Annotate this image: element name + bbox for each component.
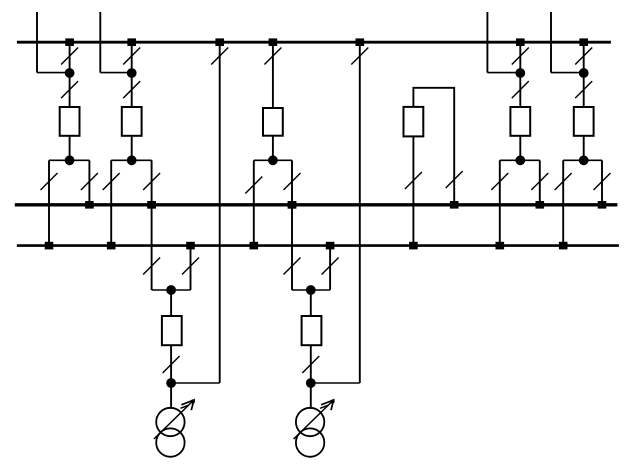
wire - T1 breaker to node [170, 345, 172, 383]
node - T2 bypass tap [306, 378, 316, 388]
disconnector QS31 (bay 3 to W1) [284, 173, 301, 190]
wire - bay 3 breaker to bar [272, 136, 274, 161]
node - bay 6 bar junction [579, 155, 589, 165]
node - bay 2 junction on bypass bus [127, 38, 136, 46]
disconnector QS-T11 (T1 to W1) [143, 258, 160, 275]
transformer T2 HV winding [296, 408, 324, 436]
wire - bay 2 node to breaker [131, 73, 133, 107]
disconnector QS22 (bay 2 to W2) [103, 173, 120, 190]
node - bay 1 right leg on W1 [85, 201, 94, 209]
wire - line feeder 2 drop [99, 12, 101, 73]
node - bay 1 junction on bypass bus [65, 38, 74, 46]
node - bay 1 bar junction [65, 155, 75, 165]
node - bay 6 line node [579, 68, 589, 78]
disconnector QS61 (bay 6 to W1) [594, 173, 611, 190]
wire - T2 right leg from W2 [329, 246, 331, 290]
wire - bay 3 right leg to bus W1 (continues to T2) [291, 160, 293, 290]
node - T2 right leg on W2 [326, 242, 335, 250]
wire - bay 2 breaker to bar [131, 136, 133, 161]
circuit breaker Q3 (bypass coupler) [263, 108, 283, 136]
disconnector QS12 (bay 1 to W2) [41, 173, 58, 190]
disconnector QS-T22 (T2 to W2) [322, 258, 339, 275]
wire - bay 5 bypass-bus to node [519, 42, 521, 73]
wire - bay 3 bar [254, 159, 292, 161]
node - T1 left leg on W1 [147, 201, 156, 209]
transformer T1 LV winding [156, 428, 184, 456]
wire - bay 6 bar [563, 159, 602, 161]
disconnector QS42 (coupler to W2) [405, 172, 422, 189]
disconnector QS-T12 (T1 to W2) [182, 258, 199, 275]
node - bay 5 left leg on W2 [496, 242, 505, 250]
disconnector QS62 (bay 6 to W2) [555, 173, 572, 190]
wire - bypass dropper B1 [219, 42, 221, 383]
transformer T1 HV winding [156, 408, 184, 436]
node - bay 3 junction on bypass bus [269, 38, 278, 46]
wire - bay 6 bypass-bus to node [583, 42, 585, 73]
bypass busbar W0 (top) [17, 41, 611, 44]
wire - bay 6 breaker to bar [583, 136, 585, 161]
node - bay 1 line node [65, 68, 75, 78]
wire - bay 2 left leg to bus W2 [110, 160, 112, 245]
wire - bay 1 bar [49, 159, 89, 161]
disconnector QS-T2t (T2 side) [302, 356, 319, 373]
wire - feeder 1 bend to node [37, 72, 70, 74]
wire - bay 1 bypass-bus to node [69, 42, 71, 73]
disconnector QS21 (bay 2 to W1) [143, 173, 160, 190]
wire - T1 right leg from W2 [190, 246, 192, 290]
node - bay 2 right leg on W1 [147, 201, 156, 209]
disconnector QS-B2 (bypass) [351, 48, 368, 65]
wire - bay 6 right leg to bus W1 [601, 160, 603, 205]
wire - bypass dropper B2 [359, 42, 361, 383]
wire - T2 bar to breaker [310, 290, 312, 316]
node - bypass dropper B2 on W0 [356, 38, 365, 46]
wire - T2 bypass link [311, 382, 360, 384]
node - T1 bar junction [166, 285, 176, 295]
transformer T1 regulation arrow [154, 399, 195, 439]
wire - T2 bar [292, 289, 330, 291]
wire - bay 2 right leg to bus W1 [151, 160, 153, 290]
circuit breaker Q6 [574, 107, 594, 136]
node - bypass dropper B1 on W0 [215, 38, 224, 46]
disconnector QS2l (bay 2 line) [123, 81, 140, 98]
wire - T2 node to transformer [310, 383, 312, 409]
wire - bay 3 left leg to bus W2 [253, 160, 255, 245]
wire - bay 1 left leg to bus W2 [48, 160, 50, 245]
wire - T1 bypass link [171, 382, 220, 384]
wire - bus coupler lower leg to W2 [412, 136, 414, 245]
wire - T1 node to transformer [170, 383, 172, 409]
disconnector QS-T21 (T2 to W1) [284, 258, 301, 275]
circuit breaker Q4 (bus coupler) [404, 107, 424, 136]
transformer T2 regulation arrow [294, 399, 335, 439]
node - bay 5 junction on bypass bus [516, 38, 525, 46]
wire - feeder 5 bend to node [487, 72, 520, 74]
circuit breaker Q2 [122, 107, 142, 136]
disconnector QS-B1 (bypass) [211, 48, 228, 65]
disconnector QS11 (bay 1 to W1) [81, 173, 98, 190]
disconnector QS3b (bay 3 bypass) [264, 48, 281, 65]
node - bay 6 right leg on W1 [598, 201, 607, 209]
wire - T2 breaker to node [310, 345, 312, 383]
node - bay 5 right leg on W1 [536, 201, 545, 209]
disconnector QS32 (bay 3 to W2) [245, 177, 262, 194]
wire - bay 5 bar [500, 159, 540, 161]
wire - line feeder 5 drop [486, 12, 488, 73]
node - bay 3 bar junction [268, 155, 278, 165]
node - T2 left leg on W1 [288, 201, 297, 209]
wire - bay 5 node to breaker [519, 73, 521, 107]
wire - bay 5 breaker to bar [519, 136, 521, 161]
node - T1 bypass tap [166, 378, 176, 388]
disconnector QS5l (bay 5 line) [512, 81, 529, 98]
wire - bay 1 breaker to bar [69, 136, 71, 161]
node - bay 3 right leg on W1 [288, 201, 297, 209]
disconnector QS-T1t (T1 side) [163, 356, 180, 373]
node - bay 5 bar junction [515, 155, 525, 165]
node - bay 2 bar junction [127, 155, 137, 165]
node - bay 6 junction on bypass bus [579, 38, 588, 46]
wire - feeder 6 bend to node [551, 72, 584, 74]
wire - bay 3 bypass bus to breaker [272, 42, 274, 108]
node - coupler on W2 [409, 242, 418, 250]
node - T2 bar junction [306, 285, 316, 295]
main busbar W1 [15, 203, 618, 206]
node - bay 5 line node [515, 68, 525, 78]
disconnector QS52 (bay 5 to W2) [491, 173, 508, 190]
node - bay 1 left leg on W2 [45, 242, 54, 250]
wire - bay 2 bar [111, 159, 151, 161]
node - bay 2 left leg on W2 [107, 242, 116, 250]
disconnector QS1b (bay 1 bypass) [61, 48, 78, 65]
transformer T2 LV winding [296, 428, 324, 456]
wire - bay 1 node to breaker [69, 73, 71, 107]
circuit breaker Q5 [510, 107, 530, 136]
wire - bay 1 right leg to bus W1 [88, 160, 90, 205]
wire - bay 6 left leg to bus W2 [562, 160, 564, 245]
wire - line feeder 1 drop [36, 12, 38, 73]
disconnector QS6b (bay 6 bypass) [575, 48, 592, 65]
node - T1 right leg on W2 [186, 242, 195, 250]
wire - bay 2 bypass-bus to node [131, 42, 133, 73]
circuit breaker Q-T1 [162, 316, 182, 345]
wire - bay 6 node to breaker [583, 73, 585, 107]
node - bay 3 left leg on W2 [250, 242, 259, 250]
wire - T1 bar to breaker [170, 290, 172, 316]
wire - bay 5 left leg to bus W2 [499, 160, 501, 245]
node - coupler on W1 [450, 201, 459, 209]
wire - bay 5 right leg to bus W1 [539, 160, 541, 205]
node - bay 6 left leg on W2 [559, 242, 568, 250]
circuit breaker Q-T2 [302, 316, 322, 345]
disconnector QS5b (bay 5 bypass) [512, 48, 529, 65]
wire - line feeder 6 drop [550, 12, 552, 73]
wire - T1 bar [152, 289, 191, 291]
node - bay 2 line node [127, 68, 137, 78]
wire - bus coupler top jumper [413, 88, 454, 205]
disconnector QS6l (bay 6 line) [575, 81, 592, 98]
disconnector QS1l (bay 1 line) [61, 81, 78, 98]
disconnector QS51 (bay 5 to W1) [531, 173, 548, 190]
disconnector QS2b (bay 2 bypass) [123, 48, 140, 65]
disconnector QS41 (coupler to W1) [446, 171, 463, 188]
main busbar W2 [17, 244, 619, 247]
wire - feeder 2 bend to node [100, 72, 131, 74]
circuit breaker Q1 [60, 107, 80, 136]
